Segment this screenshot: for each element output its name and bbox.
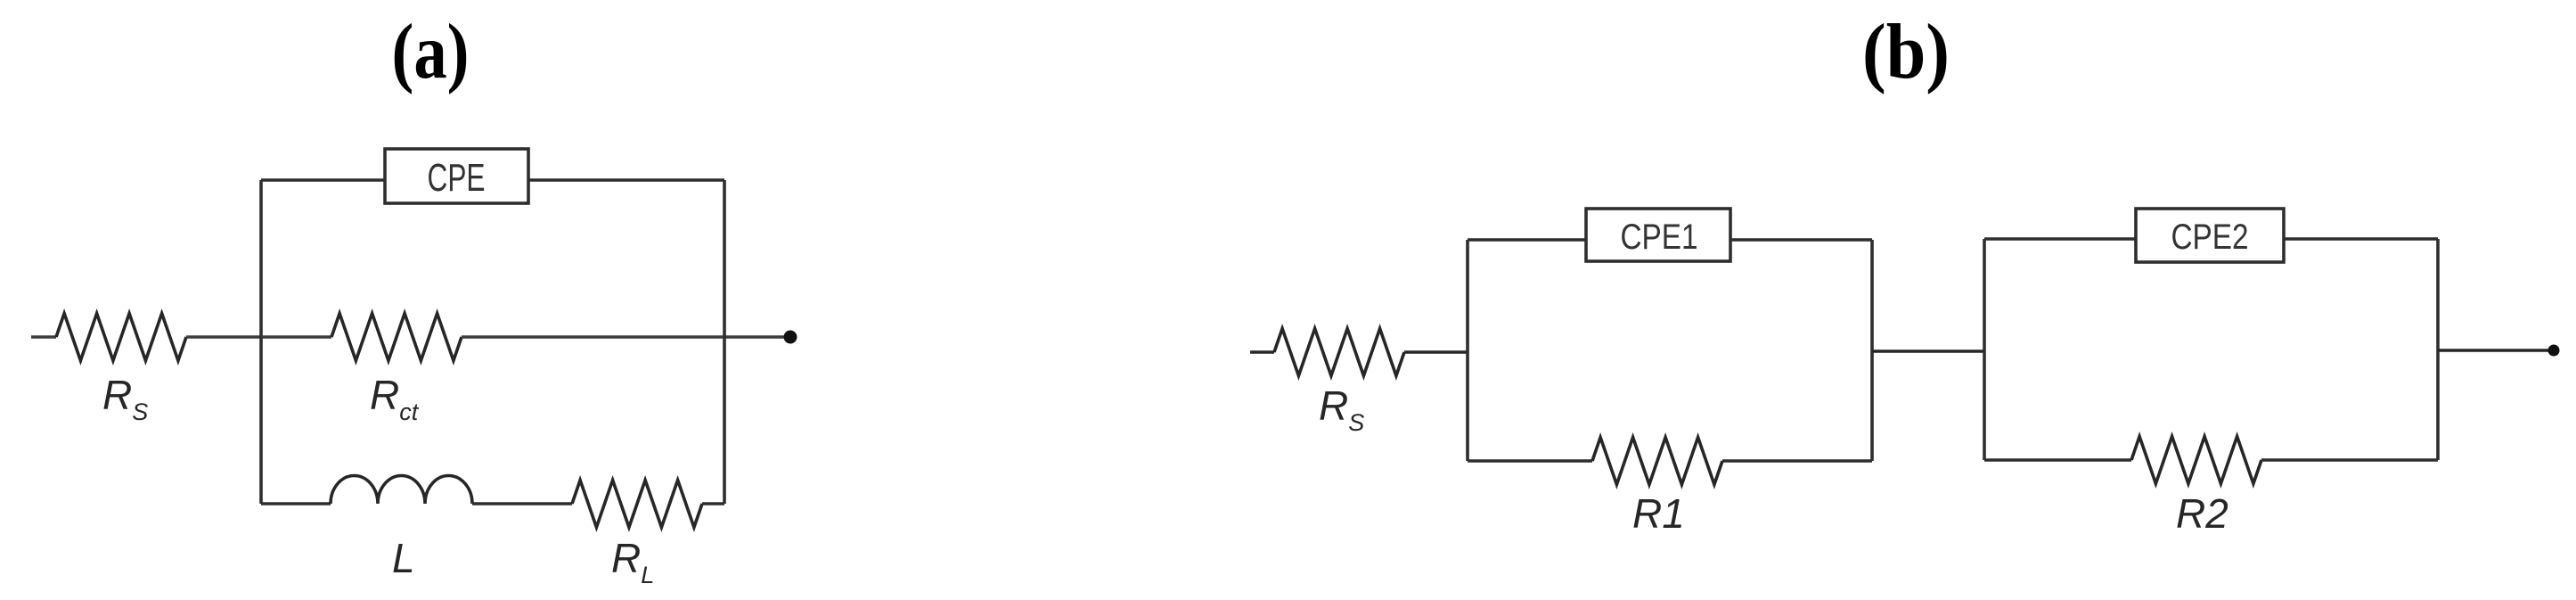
- resistor RL: [572, 481, 702, 528]
- resistor R1: [1592, 438, 1722, 485]
- wire: [1404, 350, 1468, 354]
- wire: [1984, 237, 2136, 241]
- resistor RS: [56, 314, 186, 361]
- svg-text:CPE: CPE: [428, 156, 486, 200]
- wire: [1468, 459, 1592, 463]
- node: left rail of parallel block: [259, 180, 263, 504]
- wire: [2261, 458, 2438, 462]
- node: right rail of block 1: [1870, 240, 1874, 461]
- wire: [462, 335, 785, 338]
- svg-text:CPE1: CPE1: [1621, 218, 1698, 257]
- node: right rail of block 2: [2436, 239, 2440, 460]
- wire: [1984, 458, 2131, 462]
- svg-text:L: L: [392, 535, 415, 581]
- wire: [261, 178, 385, 182]
- node: left rail of block 1: [1466, 240, 1469, 461]
- wire: [2284, 237, 2438, 241]
- CPE element CPE2 (box): [2136, 209, 2284, 262]
- wire: [261, 502, 331, 505]
- wire: [1730, 238, 1872, 242]
- wire: [1468, 238, 1586, 242]
- wire: [1872, 349, 1984, 353]
- resistor RS (series, panel b): [1274, 329, 1404, 376]
- node: left rail of block 2: [1983, 239, 1986, 460]
- wire: [261, 335, 331, 338]
- wire: [31, 335, 56, 338]
- wire: [472, 502, 572, 505]
- svg-text:R1: R1: [1632, 490, 1685, 537]
- wire: [1722, 459, 1872, 463]
- terminal node: [784, 331, 797, 344]
- wire: [528, 178, 724, 182]
- wire: [2438, 349, 2548, 352]
- svg-text:CPE2: CPE2: [2171, 218, 2249, 257]
- node: right rail of parallel block: [723, 180, 726, 504]
- wire: [186, 335, 261, 338]
- terminal node: [2548, 345, 2560, 357]
- wire: [1250, 350, 1274, 354]
- resistor Rct: [331, 314, 462, 361]
- CPE element CPE (box): [385, 149, 528, 203]
- wire: [702, 502, 724, 505]
- resistor R2: [2131, 437, 2261, 484]
- inductor L: [331, 476, 472, 505]
- CPE element CPE1 (box): [1586, 209, 1730, 261]
- svg-text:(a): (a): [392, 9, 470, 95]
- svg-text:(b): (b): [1862, 9, 1950, 95]
- svg-text:R2: R2: [2176, 490, 2228, 537]
